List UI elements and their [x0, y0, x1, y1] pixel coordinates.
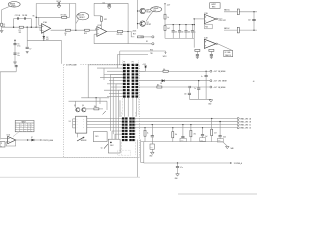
svg-text:+1V24: +1V24 [132, 30, 137, 32]
svg-text:+ OUT_VB_SENSE: + OUT_VB_SENSE [213, 87, 226, 89]
svg-text:BC327: BC327 [147, 12, 152, 14]
svg-text:1u: 1u [201, 76, 203, 78]
svg-text:R9: R9 [65, 33, 67, 35]
svg-text:GND: GND [208, 104, 211, 106]
svg-text:100n: 100n [200, 139, 203, 141]
svg-text:4k7: 4k7 [157, 85, 159, 87]
svg-text:R12: R12 [104, 19, 107, 21]
svg-text:C22: C22 [248, 19, 251, 21]
svg-text:104: 104 [188, 31, 191, 33]
svg-text:D7: D7 [31, 137, 33, 139]
svg-text:RXD: RXD [150, 49, 153, 51]
svg-text:470u: 470u [17, 45, 20, 47]
svg-text:C8: C8 [17, 53, 19, 55]
svg-text:+B: +B [253, 81, 255, 83]
svg-text:REL2: REL2 [110, 145, 114, 147]
svg-text:10k: 10k [94, 106, 97, 108]
svg-text:C10: C10 [102, 2, 105, 4]
svg-text:P3: P3 [123, 61, 125, 63]
svg-text:R4 1M: R4 1M [22, 15, 28, 17]
svg-text:+12V: +12V [167, 4, 171, 6]
svg-text:BC337: BC337 [147, 24, 152, 26]
svg-text:C2 104: C2 104 [15, 15, 21, 17]
svg-text:OFFSET: OFFSET [79, 17, 85, 19]
svg-text:100n: 100n [223, 137, 226, 139]
svg-text:1k: 1k [167, 17, 169, 19]
svg-text:TXD: TXD [150, 53, 153, 55]
svg-text:C4 104: C4 104 [56, 1, 61, 3]
svg-text:R1: R1 [19, 30, 21, 32]
svg-text:1u: 1u [194, 88, 196, 90]
svg-text:10n: 10n [181, 31, 184, 33]
svg-text:Q4: Q4 [82, 105, 84, 107]
svg-text:+CIN_OUT1: +CIN_OUT1 [218, 20, 226, 22]
svg-text:10n: 10n [175, 31, 178, 33]
svg-text:R20: R20 [205, 27, 208, 29]
svg-text:4k7: 4k7 [167, 28, 170, 30]
svg-text:Q2: Q2 [147, 22, 149, 24]
svg-text:GND: GND [175, 178, 178, 180]
svg-text:K1: K1 [146, 41, 148, 43]
svg-text:C7: C7 [29, 48, 31, 50]
svg-text:47u: 47u [180, 167, 183, 169]
svg-text:ISO1: ISO1 [95, 136, 98, 138]
svg-text:LM317: LM317 [211, 4, 216, 6]
svg-text:MAINS: MAINS [10, 2, 16, 5]
svg-text:IC1B: IC1B [97, 25, 101, 27]
svg-text:+1V5: +1V5 [142, 64, 146, 66]
svg-text:10u: 10u [151, 147, 153, 149]
svg-text:+ OUT_VB_SENSE: + OUT_VB_SENSE [213, 71, 226, 73]
svg-text:4k7: 4k7 [214, 132, 216, 134]
svg-text:+ OUT_CHG_SENSE: + OUT_CHG_SENSE [213, 81, 227, 83]
svg-text:IN: IN [1, 146, 2, 148]
svg-text:R6: R6 [33, 15, 35, 17]
svg-text:10k: 10k [175, 134, 177, 136]
svg-text:P4: P4 [132, 61, 134, 63]
svg-text:220: 220 [184, 93, 186, 95]
svg-text:R10: R10 [84, 33, 87, 35]
svg-text:2k2: 2k2 [19, 32, 22, 34]
svg-text:10k: 10k [163, 69, 166, 71]
svg-text:SENSOR: SENSOR [81, 140, 87, 142]
svg-text:100n: 100n [218, 140, 221, 142]
svg-text:GND: GND [149, 156, 152, 158]
svg-text:F1: F1 [3, 24, 5, 26]
svg-text:U3: U3 [69, 121, 71, 123]
svg-text:R15 10k: R15 10k [117, 34, 123, 36]
svg-text:D5: D5 [160, 83, 162, 85]
svg-text:10u: 10u [17, 55, 19, 57]
svg-text:CTRCTR_HIGH: CTRCTR_HIGH [42, 140, 53, 142]
svg-text:Q5: Q5 [101, 147, 103, 149]
svg-text:R7 100k: R7 100k [61, 15, 67, 17]
svg-text:R17: R17 [133, 34, 136, 36]
svg-text:WPU: WPU [163, 56, 167, 58]
svg-text:4V7: 4V7 [46, 39, 49, 41]
svg-text:COIL: COIL [153, 10, 156, 12]
svg-text:47k: 47k [194, 134, 197, 136]
svg-text:B1: B1 [3, 26, 5, 28]
svg-text:1k: 1k [65, 35, 67, 37]
svg-text:C6: C6 [17, 43, 19, 45]
svg-text:IC2B: IC2B [204, 38, 207, 40]
svg-text:D2: D2 [46, 37, 48, 39]
